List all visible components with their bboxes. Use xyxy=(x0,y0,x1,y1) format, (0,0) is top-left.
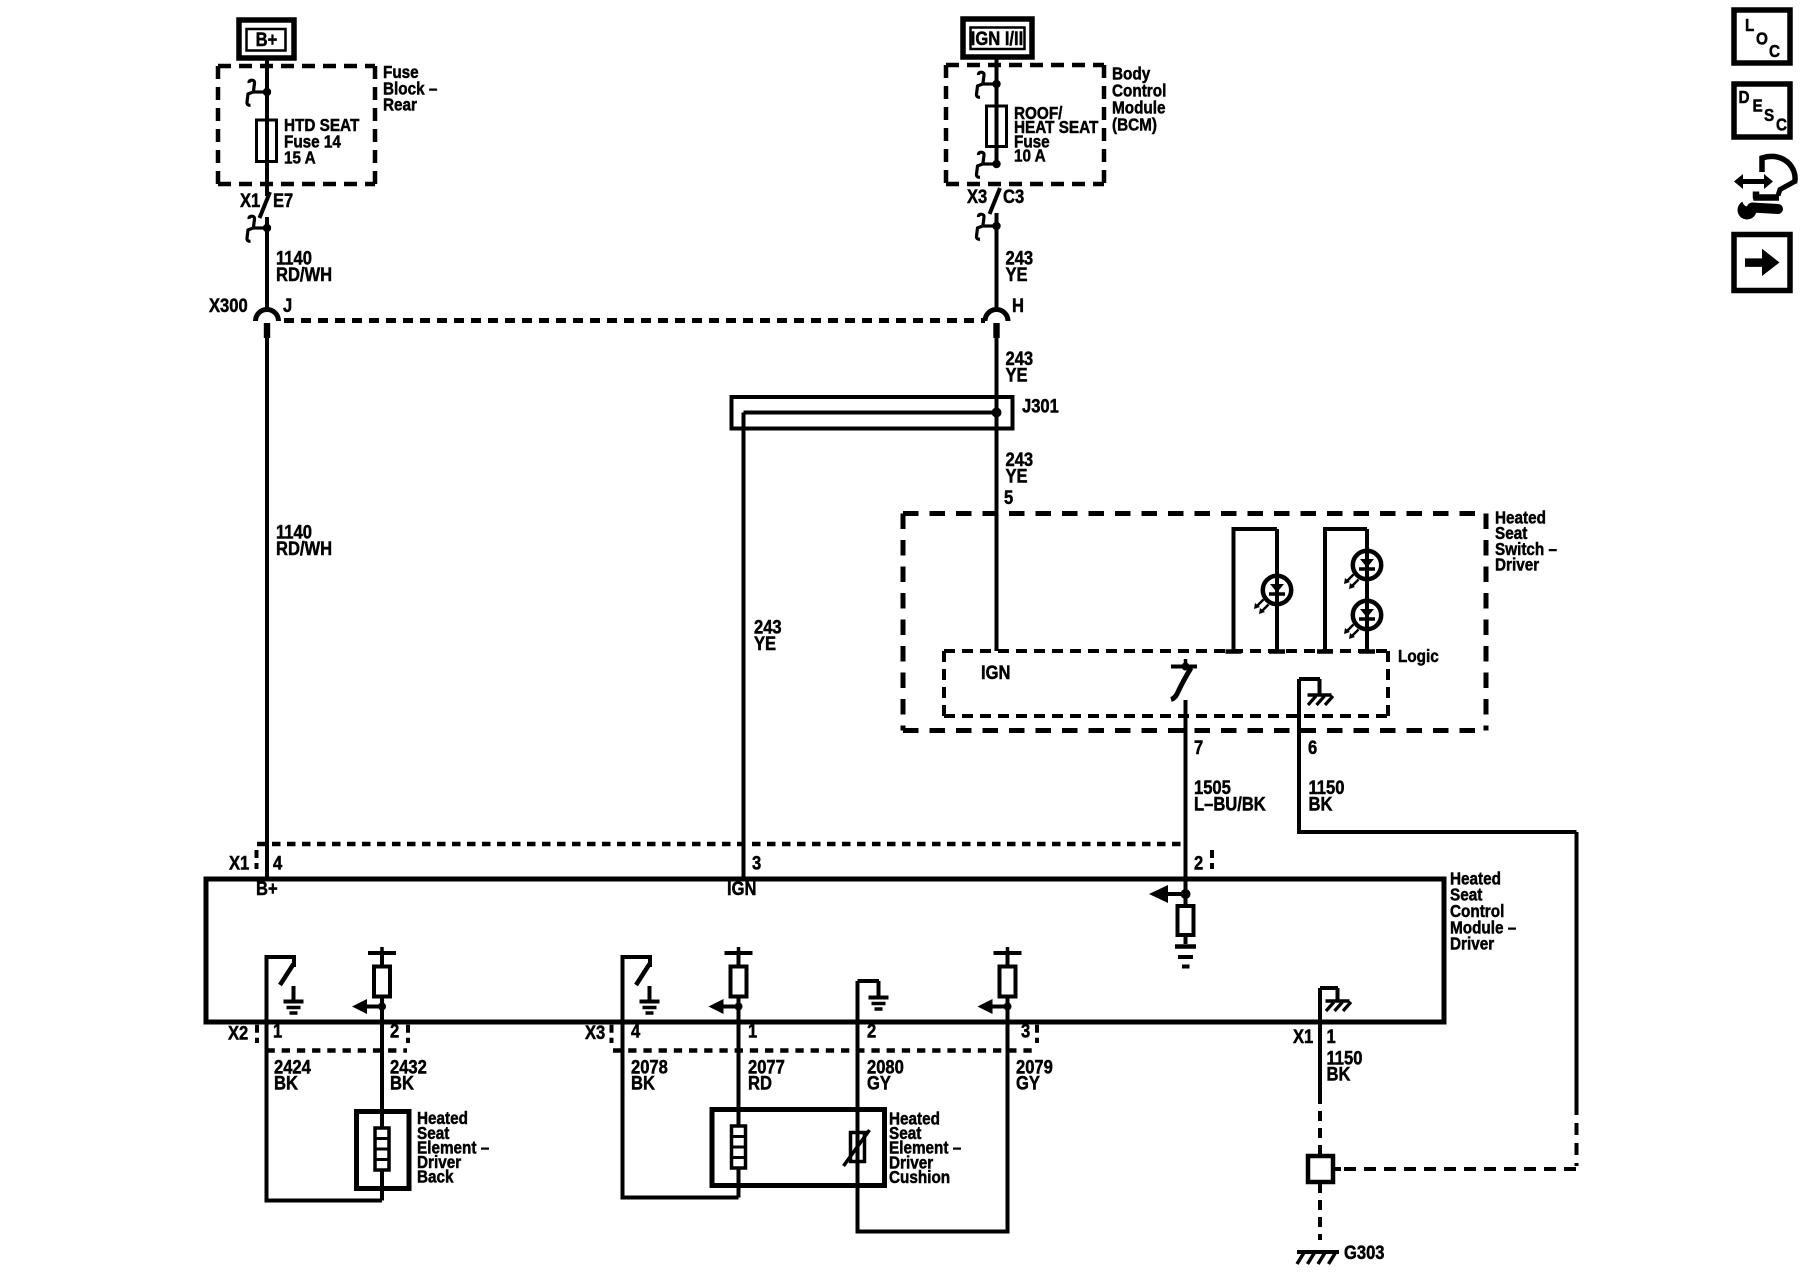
switch contact in logic xyxy=(1171,659,1197,671)
LED indicator 3 xyxy=(1344,601,1381,639)
label X1 bottom right xyxy=(1293,1026,1313,1048)
fuse ROOF/HEAT SEAT 10A xyxy=(987,84,1007,164)
label B+ inside module xyxy=(256,878,278,900)
terminal hook below X1-E7 xyxy=(247,216,271,241)
svg-text:1: 1 xyxy=(748,1020,757,1042)
label Heated Seat Switch - Driver xyxy=(1495,507,1557,575)
svg-text:2: 2 xyxy=(867,1020,876,1042)
label wire 243 YE below J301 xyxy=(1006,449,1034,487)
fuse block rear dashed box xyxy=(218,66,375,184)
svg-text:IGN: IGN xyxy=(981,662,1010,684)
label wire 2424 BK xyxy=(274,1056,311,1094)
icon wrench xyxy=(1738,196,1779,220)
label Body Control Module BCM xyxy=(1112,63,1166,134)
label pin 7 xyxy=(1194,737,1203,759)
wire 2079 GY xyxy=(1006,1022,1010,1234)
wire to fuse HTD SEAT xyxy=(265,92,269,120)
svg-text:Driver: Driver xyxy=(1495,555,1540,575)
label wire 2432 BK xyxy=(390,1056,427,1094)
label wire 2078 BK xyxy=(631,1056,668,1094)
label Fuse Block - Rear xyxy=(383,62,437,115)
label wire 243 YE branch xyxy=(754,616,782,654)
label X300 xyxy=(209,295,248,317)
svg-text:YE: YE xyxy=(1006,364,1028,386)
svg-text:RD/WH: RD/WH xyxy=(276,538,332,560)
svg-text:E: E xyxy=(1753,95,1763,115)
label X3 bottom xyxy=(585,1022,605,1044)
splice bar inside J301 xyxy=(744,408,1002,418)
svg-text:YE: YE xyxy=(1006,264,1028,286)
svg-text:Driver: Driver xyxy=(1450,933,1495,953)
label wire 2079 GY xyxy=(1016,1056,1053,1094)
svg-text:3: 3 xyxy=(1021,1020,1030,1042)
svg-text:E7: E7 xyxy=(273,190,293,212)
svg-text:C: C xyxy=(1769,41,1780,61)
ground symbol in logic box xyxy=(1299,679,1333,716)
svg-text:(BCM): (BCM) xyxy=(1112,114,1157,134)
wire 2078 BK xyxy=(623,1022,739,1200)
svg-text:B+: B+ xyxy=(256,29,278,51)
bracket X2 pin2 xyxy=(406,1025,410,1043)
dashed wire to splice square xyxy=(1318,1094,1322,1155)
heater element driver back xyxy=(375,1128,389,1201)
label X3 xyxy=(967,186,987,208)
label J301 xyxy=(1022,395,1059,417)
svg-text:X2: X2 xyxy=(228,1022,248,1044)
svg-text:C3: C3 xyxy=(1003,186,1024,208)
svg-text:RD: RD xyxy=(748,1072,772,1094)
sense resistor X3-1 in module xyxy=(709,947,753,1021)
switch to ground X3-4 in module xyxy=(623,955,660,1021)
svg-text:B+: B+ xyxy=(256,878,278,900)
module input resistor to ground at pin2 xyxy=(1149,885,1196,967)
label Heated Seat Element - Driver Back xyxy=(417,1108,489,1187)
label pin 2 xyxy=(1194,852,1203,874)
svg-text:J: J xyxy=(283,295,292,317)
svg-text:D: D xyxy=(1739,87,1750,107)
wire fuse to connector X1-E7 xyxy=(265,162,269,196)
label wire 2080 GY xyxy=(867,1056,904,1094)
wire 2424 BK xyxy=(267,1022,383,1203)
wire IGN feed into BCM xyxy=(995,57,999,84)
wire 1140 to X300 xyxy=(265,217,269,311)
wire 243 YE J301 to switch pin5 xyxy=(995,412,999,651)
dashed connector line module X1 xyxy=(257,842,1185,847)
label wire 1140 RD/WH upper xyxy=(276,247,332,285)
logic dashed box xyxy=(944,651,1388,716)
label E7 xyxy=(273,190,293,212)
heated seat control module box xyxy=(206,879,1444,1022)
splice square xyxy=(1308,1156,1341,1182)
label Heated Seat Control Module - Driver xyxy=(1450,868,1516,954)
wire 2080 GY xyxy=(858,1022,1008,1234)
dashed connector line X3 xyxy=(613,1048,1036,1053)
label wire 243 YE below H xyxy=(1006,348,1034,386)
heater element driver cushion xyxy=(732,1126,746,1198)
terminal hook below X3-C3 xyxy=(976,214,1000,239)
wire 1140 RD/WH down to module xyxy=(265,337,269,879)
label wire 1150 BK bottom xyxy=(1327,1047,1363,1084)
svg-text:YE: YE xyxy=(1006,465,1028,487)
svg-text:X1: X1 xyxy=(1293,1026,1313,1048)
wire 243 YE branch J301 to module IGN xyxy=(742,413,746,880)
ground X1-1 in module xyxy=(1320,988,1351,1021)
svg-text:X1: X1 xyxy=(240,190,260,212)
connector X300 cavity J xyxy=(256,295,293,338)
label X2 xyxy=(228,1022,248,1044)
svg-text:G303: G303 xyxy=(1344,1242,1385,1264)
svg-text:BK: BK xyxy=(274,1072,298,1094)
svg-text:6: 6 xyxy=(1308,737,1317,759)
svg-text:YE: YE xyxy=(754,633,776,655)
svg-text:1: 1 xyxy=(273,1020,282,1042)
svg-text:4: 4 xyxy=(273,852,282,874)
label X1 pin 1 xyxy=(1327,1026,1336,1048)
connector X3 C3 slash xyxy=(990,188,1001,214)
label Logic xyxy=(1398,646,1439,666)
fuse HTD SEAT Fuse 14 15A xyxy=(257,120,277,162)
icon DESC box xyxy=(1734,84,1790,137)
ground G303 xyxy=(1297,1251,1339,1264)
svg-text:BK: BK xyxy=(1309,793,1333,815)
svg-text:RD/WH: RD/WH xyxy=(276,264,332,286)
dashed connector line X2 xyxy=(267,1048,408,1053)
splice pack J301 box xyxy=(732,397,1013,429)
heated seat element driver back box xyxy=(357,1112,410,1189)
label pin 4 xyxy=(273,852,282,874)
connector X300 cavity H xyxy=(985,310,1008,339)
svg-text:3: 3 xyxy=(752,852,761,874)
label wire 1505 L-BU/BK xyxy=(1194,777,1266,815)
bracket X1 top xyxy=(255,850,259,869)
power symbol B+ xyxy=(239,20,294,58)
icon LOC box xyxy=(1734,10,1790,63)
label pin 6 xyxy=(1308,737,1317,759)
LED indicator 1 xyxy=(1254,576,1291,614)
wire 1150 BK module to splice xyxy=(1318,1022,1322,1094)
wire 243 YE to X300 xyxy=(995,213,999,311)
label G303 xyxy=(1344,1242,1385,1264)
icon forward arrow box xyxy=(1734,235,1790,291)
dashed wire splice to G303 xyxy=(1318,1183,1322,1240)
label pin 5 xyxy=(1004,487,1013,509)
icon schematic navigation arrows xyxy=(1734,156,1796,197)
label X3 pin 2 xyxy=(867,1020,876,1042)
svg-text:X3: X3 xyxy=(585,1022,605,1044)
label X2 pin 2 xyxy=(390,1020,399,1042)
svg-text:L–BU/BK: L–BU/BK xyxy=(1194,793,1266,815)
svg-text:2: 2 xyxy=(1194,852,1203,874)
label IGN inside logic xyxy=(981,662,1010,684)
svg-text:IGN: IGN xyxy=(727,878,756,900)
thermistor driver cushion xyxy=(844,1130,870,1166)
svg-text:BK: BK xyxy=(390,1072,414,1094)
svg-text:7: 7 xyxy=(1194,737,1203,759)
svg-text:GY: GY xyxy=(867,1072,891,1094)
switch blade xyxy=(1171,668,1191,700)
ground ref X3-2 in module xyxy=(858,981,889,1021)
svg-text:X3: X3 xyxy=(967,186,987,208)
bracket X3 xyxy=(610,1025,614,1043)
label X1 xyxy=(240,190,260,212)
svg-text:IGN I/II: IGN I/II xyxy=(971,28,1023,50)
svg-text:15 A: 15 A xyxy=(284,147,316,167)
BCM dashed box xyxy=(946,65,1104,184)
power symbol IGN I/II xyxy=(963,19,1032,57)
svg-text:BK: BK xyxy=(1327,1063,1351,1085)
svg-text:J301: J301 xyxy=(1022,395,1059,417)
label HTD SEAT Fuse 14 15 A xyxy=(284,115,360,168)
svg-text:S: S xyxy=(1764,105,1774,125)
label X3 pin 1 xyxy=(748,1020,757,1042)
svg-text:Rear: Rear xyxy=(383,94,417,114)
dashed run from splice to switch ground xyxy=(1344,1103,1577,1169)
wire 243 YE from H to J301 xyxy=(995,337,999,413)
terminal hook at fuse block feed xyxy=(247,80,271,105)
label IGN inside module xyxy=(727,878,756,900)
label C3 xyxy=(1003,186,1024,208)
switch to ground X2-1 in module xyxy=(267,955,304,1021)
svg-text:H: H xyxy=(1012,295,1024,317)
svg-text:O: O xyxy=(1756,28,1768,48)
wire 1505 L-BU/BK pin7 to module xyxy=(1184,731,1188,890)
label pin 3 xyxy=(752,852,761,874)
label X1 top xyxy=(229,852,249,874)
connector X1 E7 slash xyxy=(260,192,271,218)
svg-text:Cushion: Cushion xyxy=(889,1167,950,1187)
svg-text:X300: X300 xyxy=(209,295,248,317)
bracket X3 pin3 xyxy=(1035,1025,1039,1043)
terminal hook below BCM fuse xyxy=(976,152,1000,177)
label wire 1150 BK at pin6 xyxy=(1309,777,1345,815)
sense resistor X2-2 in module xyxy=(352,947,396,1021)
svg-text:Logic: Logic xyxy=(1398,646,1439,666)
svg-text:BK: BK xyxy=(631,1072,655,1094)
sense resistor X3-3 in module xyxy=(978,947,1022,1021)
label X3 pin 4 xyxy=(631,1020,640,1042)
wire 1150 BK pin6 right-run xyxy=(1299,716,1577,1103)
label wire 1140 RD/WH lower xyxy=(276,521,332,559)
heated seat element driver cushion box xyxy=(712,1110,885,1186)
wire 2077 RD xyxy=(737,1022,741,1126)
wire 2432 BK xyxy=(380,1022,384,1128)
label X3 pin 3 xyxy=(1021,1020,1030,1042)
wire B+ feed into fuse block xyxy=(265,58,269,92)
terminal hook at BCM feed xyxy=(976,72,1000,97)
label wire 243 YE above H xyxy=(1006,247,1034,285)
heated seat switch dashed box xyxy=(903,514,1486,731)
label Heated Seat Element - Driver Cushion xyxy=(889,1108,961,1187)
label X2 pin 1 xyxy=(273,1020,282,1042)
bracket pin 2 top xyxy=(1210,850,1214,869)
svg-text:5: 5 xyxy=(1004,487,1013,509)
svg-text:10 A: 10 A xyxy=(1014,145,1046,165)
dashed connector line X300 xyxy=(284,318,985,323)
svg-text:C: C xyxy=(1776,114,1787,134)
LED indicator 2 xyxy=(1344,551,1381,589)
wire switch blade to pin 7 xyxy=(1184,700,1188,731)
label wire 2077 RD xyxy=(748,1056,785,1094)
indicator loop 1 wires xyxy=(1226,527,1286,652)
svg-text:2: 2 xyxy=(390,1020,399,1042)
svg-text:4: 4 xyxy=(631,1020,640,1042)
svg-text:X1: X1 xyxy=(229,852,249,874)
svg-text:Back: Back xyxy=(417,1166,454,1186)
svg-text:L: L xyxy=(1745,15,1754,35)
indicator loop 2 wires xyxy=(1317,527,1375,652)
label ROOF/HEAT SEAT Fuse 10 A xyxy=(1014,103,1099,166)
bracket X2 xyxy=(255,1025,259,1043)
label H xyxy=(1012,295,1024,317)
svg-text:1: 1 xyxy=(1327,1026,1336,1048)
svg-text:GY: GY xyxy=(1016,1072,1040,1094)
